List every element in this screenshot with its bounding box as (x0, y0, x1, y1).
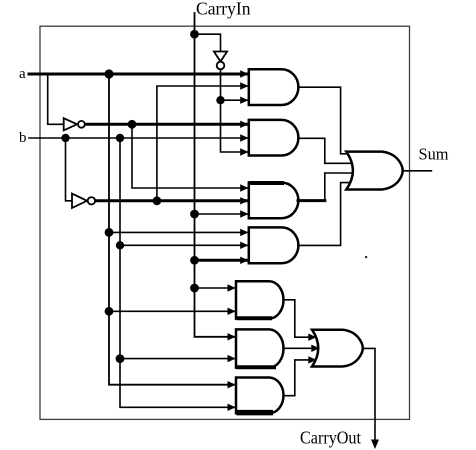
svg-text:Sum: Sum (419, 145, 449, 164)
svg-text:CarryIn: CarryIn (196, 0, 251, 19)
svg-text:a: a (19, 66, 26, 82)
svg-text:b: b (19, 130, 27, 146)
svg-text:CarryOut: CarryOut (300, 428, 361, 448)
